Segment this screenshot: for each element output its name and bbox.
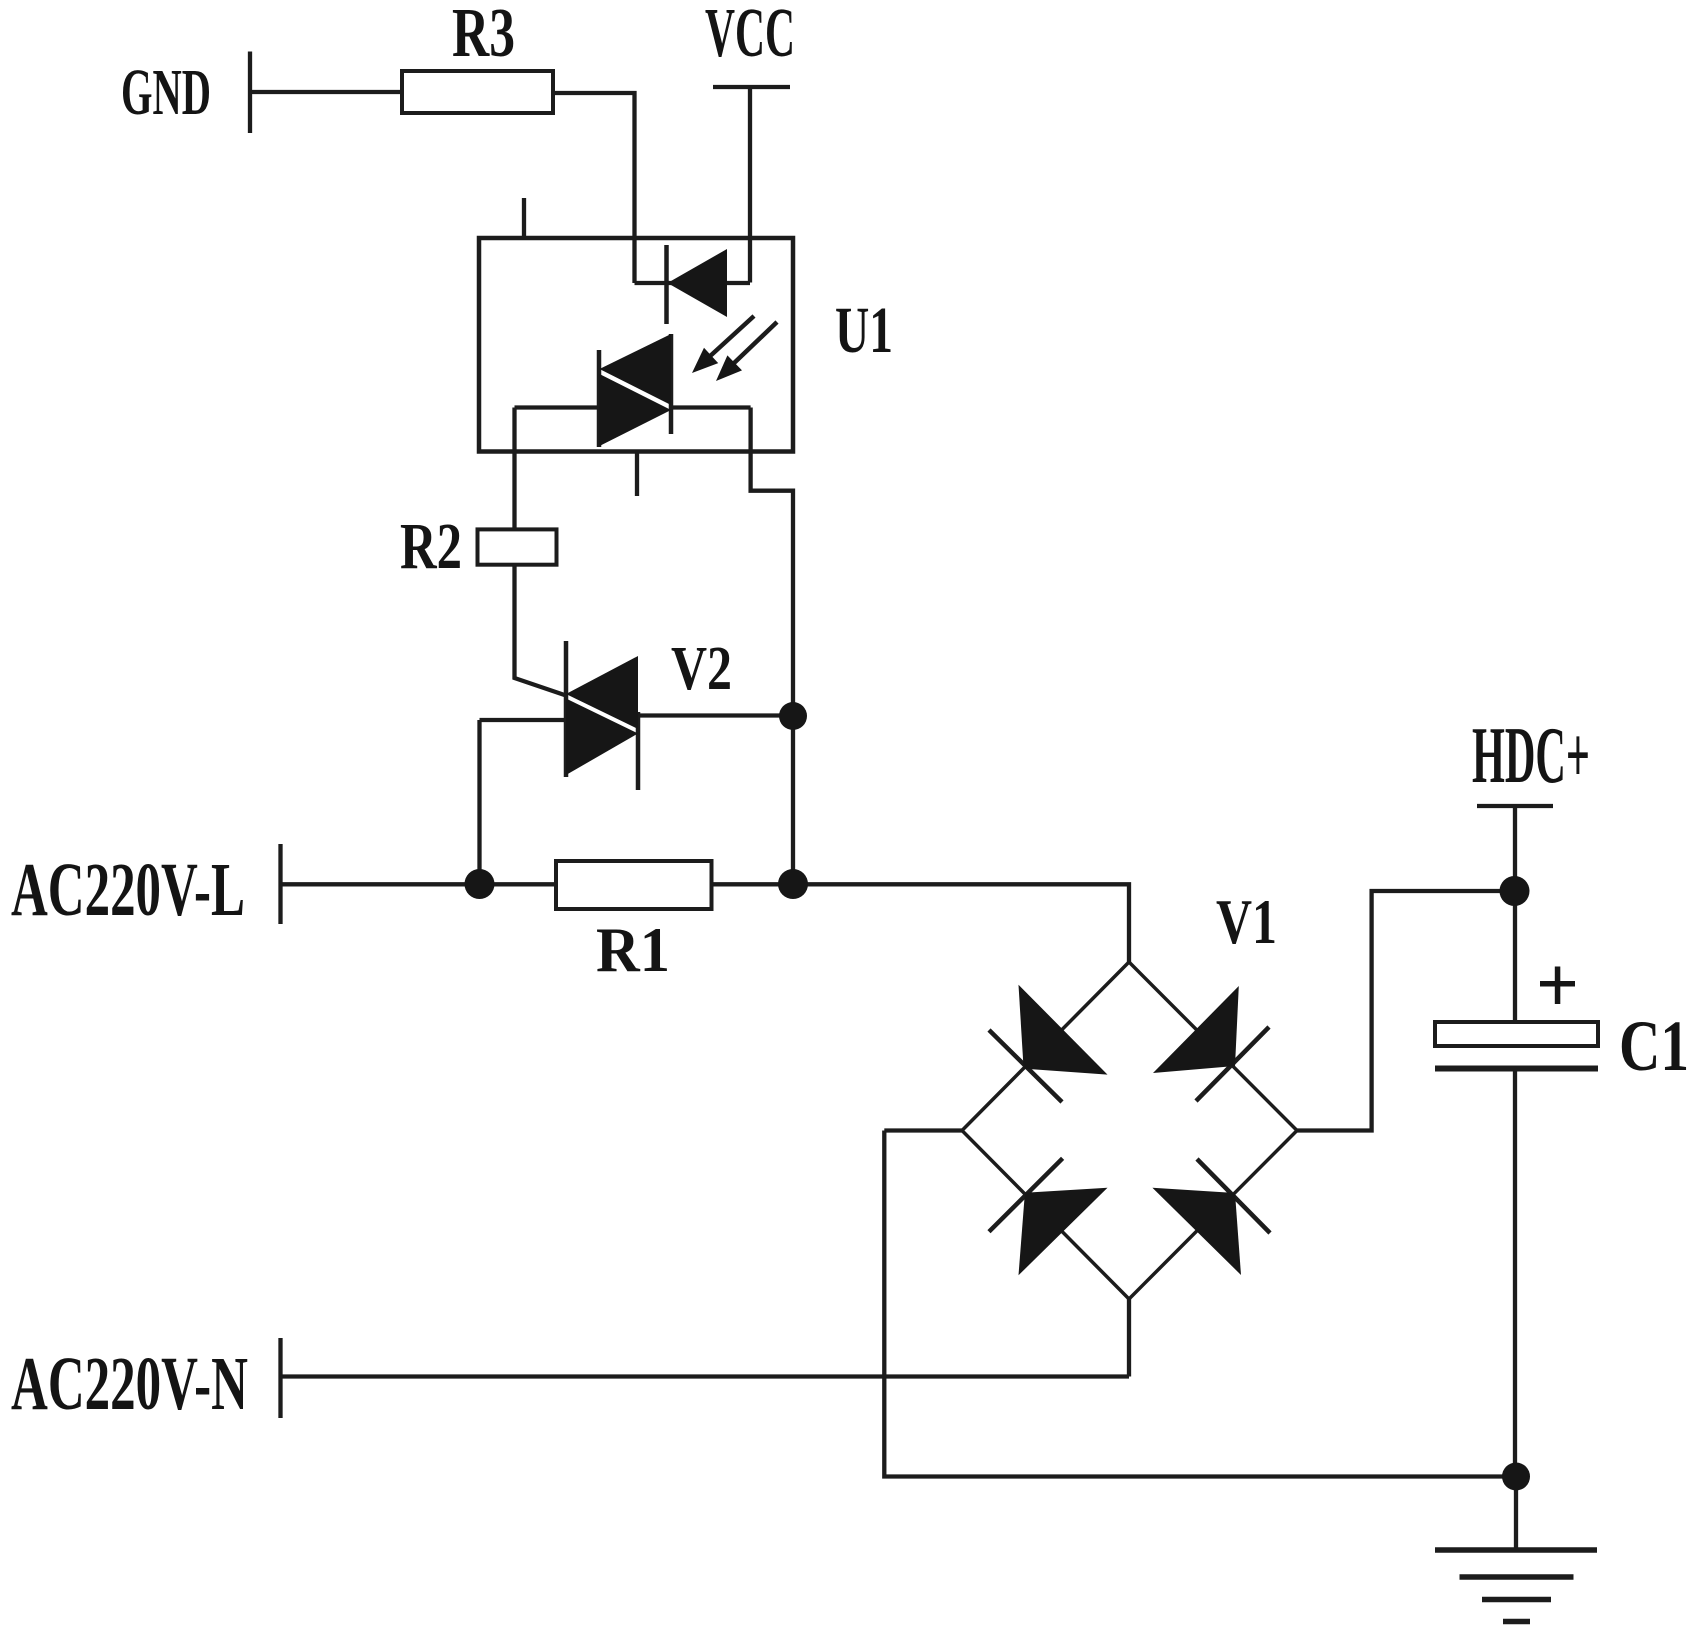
svg-text:GND: GND xyxy=(121,56,211,129)
svg-text:HDC+: HDC+ xyxy=(1472,712,1590,800)
svg-text:V1: V1 xyxy=(1216,886,1277,957)
svg-text:C1: C1 xyxy=(1619,1006,1689,1086)
svg-text:U1: U1 xyxy=(835,294,893,367)
svg-text:V2: V2 xyxy=(671,635,732,703)
svg-text:R2: R2 xyxy=(400,510,462,583)
svg-text:AC220V-N: AC220V-N xyxy=(11,1342,248,1426)
svg-text:R3: R3 xyxy=(452,0,515,72)
svg-text:VCC: VCC xyxy=(705,0,795,72)
svg-text:AC220V-L: AC220V-L xyxy=(11,848,245,932)
svg-text:R1: R1 xyxy=(596,914,670,985)
